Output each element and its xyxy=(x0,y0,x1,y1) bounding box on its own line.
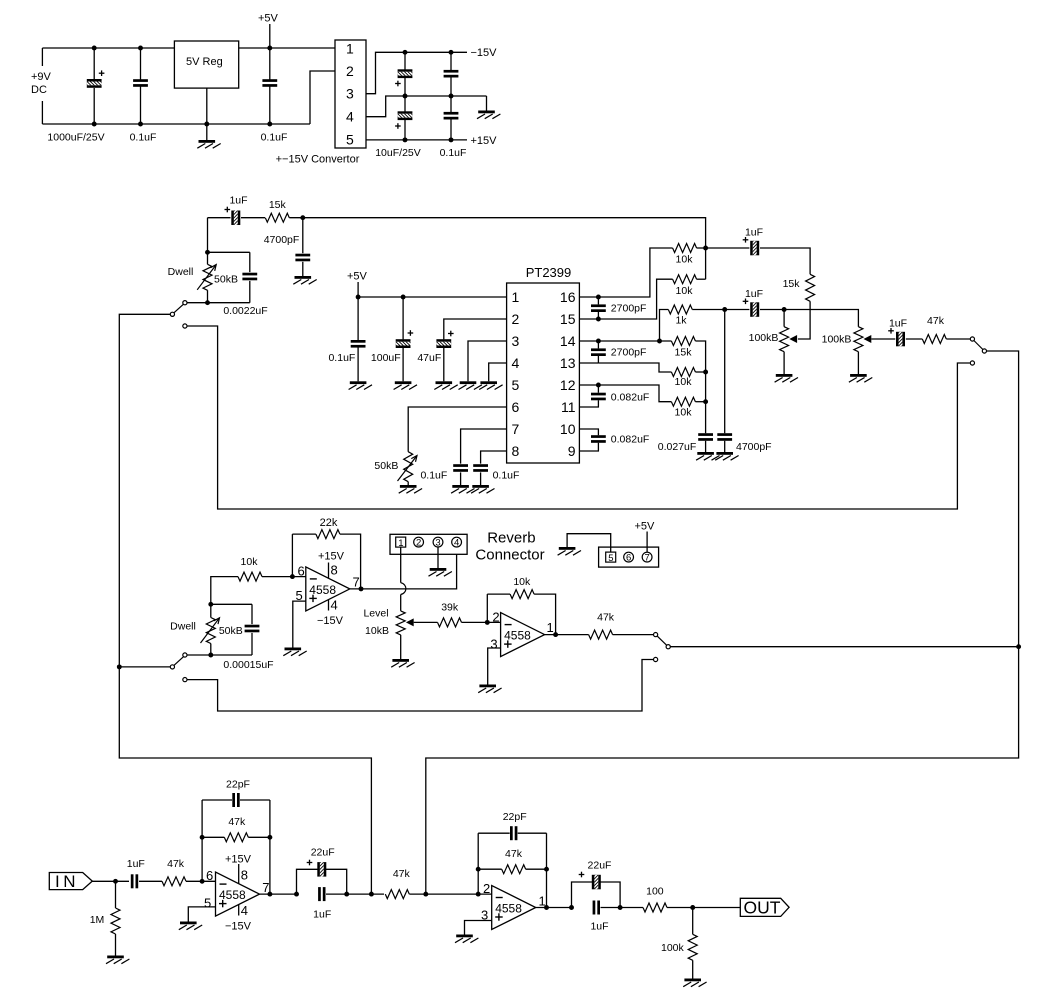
wire xyxy=(140,86,142,124)
wire convertor pin5 +15V rail xyxy=(366,139,467,141)
wire return bus from SW3 common xyxy=(426,351,1019,894)
svg-text:12: 12 xyxy=(560,377,576,393)
wire xyxy=(302,218,304,254)
capacitor 0.1uF upper xyxy=(444,70,459,78)
resistor 15k (feedback) xyxy=(265,213,289,222)
wire to 15k xyxy=(760,248,810,274)
wire feedback right leg xyxy=(269,800,271,894)
node xyxy=(657,339,662,344)
wire pin 4 to ground xyxy=(489,363,507,381)
wire xyxy=(450,119,452,140)
wire hop over opamp1 output xyxy=(401,583,406,595)
node opamp4 inv input xyxy=(476,892,481,897)
wire to opamp2 inv input xyxy=(462,621,501,623)
resistor 1k xyxy=(668,305,692,314)
wire long top feed to 10k pair xyxy=(289,218,705,280)
potentiometer Level 10kB xyxy=(396,611,405,635)
svg-text:1uF: 1uF xyxy=(745,226,763,238)
svg-text:6: 6 xyxy=(206,868,213,883)
capacitor 0.1uF input xyxy=(133,79,148,87)
svg-text:+5V: +5V xyxy=(258,13,279,25)
svg-text:−15V: −15V xyxy=(471,47,498,59)
node xyxy=(138,122,143,127)
node opamp1 output xyxy=(359,586,364,591)
svg-text:1: 1 xyxy=(547,620,554,635)
svg-text:1uF: 1uF xyxy=(889,317,907,329)
ground xyxy=(434,381,457,389)
wire +9V input upper xyxy=(41,48,43,66)
switch SW1 common contact xyxy=(170,312,174,316)
svg-text:0.027uF: 0.027uF xyxy=(658,441,697,453)
wire xyxy=(249,281,251,303)
wire xyxy=(115,934,117,956)
wire xyxy=(93,48,95,79)
node xyxy=(703,399,708,404)
wire xyxy=(601,907,644,909)
reverb connector J1 pins 5-7 xyxy=(599,547,659,567)
svg-text:22uF: 22uF xyxy=(311,846,335,858)
wire xyxy=(597,356,599,363)
svg-text:11: 11 xyxy=(561,399,576,415)
svg-text:2700pF: 2700pF xyxy=(611,347,647,359)
wire connector pin5 to ground xyxy=(567,534,611,552)
wire pin 12 to 10k xyxy=(579,385,671,402)
svg-text:1000uF/25V: 1000uF/25V xyxy=(47,132,104,144)
wire xyxy=(692,908,694,935)
svg-text:4: 4 xyxy=(454,538,459,549)
node opamp3 inv input xyxy=(200,879,205,884)
svg-text:15k: 15k xyxy=(783,278,801,290)
switch SW3 throw B contact xyxy=(970,361,974,365)
wire to opamp4 inv input xyxy=(409,893,491,895)
ground opamp3 +in xyxy=(179,922,202,930)
node xyxy=(344,892,349,897)
svg-text:47k: 47k xyxy=(597,611,615,623)
capacitor 0.082uF (pins 10-9) xyxy=(591,435,606,443)
svg-text:7: 7 xyxy=(353,575,360,590)
svg-text:4: 4 xyxy=(512,355,520,371)
switch SW4 throw A contact xyxy=(654,633,658,637)
resistor 100k xyxy=(688,934,697,960)
svg-text:4558: 4558 xyxy=(219,888,246,902)
svg-text:5: 5 xyxy=(512,377,520,393)
svg-text:22uF: 22uF xyxy=(588,859,612,871)
svg-text:10k: 10k xyxy=(676,285,694,297)
wiper arrow 100kB pot 1 xyxy=(789,335,797,343)
wire convertor pin3 to -15V rail xyxy=(366,52,467,93)
capacitor 0.082uF (pins 12-11) xyxy=(591,393,606,401)
wire SW2 throw B to SW4 throw B (bypass) xyxy=(187,660,654,712)
capacitor 22uF (coupling 2) xyxy=(579,869,601,895)
node xyxy=(596,317,601,322)
+-15V convertor module U2 xyxy=(335,40,366,148)
switch SW4 common contact xyxy=(666,645,670,649)
ground pin 3 xyxy=(459,381,482,389)
svg-text:4: 4 xyxy=(346,109,354,125)
wire convertor pin2 to ground rail xyxy=(310,71,335,124)
ground mid rail xyxy=(477,111,500,119)
svg-text:0.1uF: 0.1uF xyxy=(420,469,447,481)
node xyxy=(544,867,549,872)
wire to OUT xyxy=(667,907,740,909)
svg-text:0.1uF: 0.1uF xyxy=(440,147,467,159)
svg-text:14: 14 xyxy=(560,333,576,349)
node xyxy=(92,122,97,127)
svg-text:−15V: −15V xyxy=(225,920,252,932)
resistor 10k (recovery fb) xyxy=(510,590,534,599)
wire xyxy=(404,120,406,140)
wire opamp2 +in to ground xyxy=(488,648,501,685)
switch SW4 throw B contact xyxy=(654,657,658,661)
potentiometer Dwell 50kB (section 2) xyxy=(203,264,212,290)
wire +5V rail to pin 1 xyxy=(358,296,507,298)
wire xyxy=(697,278,706,280)
svg-text:22pF: 22pF xyxy=(226,779,250,791)
capacitor 10uF/25V upper xyxy=(392,69,418,86)
svg-text:47uF: 47uF xyxy=(417,352,441,364)
svg-text:OUT: OUT xyxy=(744,898,781,918)
svg-text:22k: 22k xyxy=(320,517,338,529)
capacitor 0.027uF xyxy=(698,433,713,441)
capacitor 1000uF/25V xyxy=(81,70,107,87)
svg-text:4558: 4558 xyxy=(309,583,336,597)
wire xyxy=(760,309,784,311)
wire xyxy=(202,799,232,801)
wire SW4 common to return bus xyxy=(670,646,1018,648)
ground pot1 xyxy=(775,374,798,382)
wire opamp3 out xyxy=(260,893,297,895)
svg-text:15: 15 xyxy=(560,311,576,327)
switch SW2 lever xyxy=(174,657,184,666)
wire opamp4 +in to ground xyxy=(465,921,492,935)
ground xyxy=(451,485,474,493)
wire pin 13 to 10k xyxy=(598,363,671,372)
wire pot bottom node xyxy=(187,302,250,304)
svg-text:4558: 4558 xyxy=(504,629,531,643)
wire xyxy=(249,252,251,272)
switch SW3 common contact xyxy=(982,349,986,353)
capacitor 1uF (coupling 2) xyxy=(593,901,600,915)
svg-text:Connector: Connector xyxy=(475,547,544,564)
svg-text:4700pF: 4700pF xyxy=(264,234,300,246)
wire to Level pot xyxy=(400,595,402,611)
svg-text:5: 5 xyxy=(608,553,613,564)
wire xyxy=(241,217,265,219)
wire xyxy=(400,635,402,659)
wire 15k to pot1 wiper xyxy=(798,301,810,339)
svg-text:Reverb: Reverb xyxy=(487,529,535,546)
svg-text:10k: 10k xyxy=(676,253,694,265)
svg-text:13: 13 xyxy=(560,355,576,371)
svg-text:4: 4 xyxy=(241,903,248,918)
svg-text:7: 7 xyxy=(512,421,520,437)
wire xyxy=(210,644,212,656)
resistor 100 xyxy=(643,903,667,912)
wire to 10k xyxy=(211,577,238,605)
power section top rail wire xyxy=(42,47,335,49)
wire xyxy=(487,593,510,595)
node xyxy=(267,835,272,840)
svg-text:0.00015uF: 0.00015uF xyxy=(223,659,273,671)
wire send bus from SW1 common to input buffer node xyxy=(119,314,371,894)
svg-text:10: 10 xyxy=(560,421,576,437)
capacitor 1uF input xyxy=(131,874,138,888)
node xyxy=(449,50,454,55)
wire pin 8 stub xyxy=(238,864,240,884)
node xyxy=(403,137,408,142)
svg-text:+5V: +5V xyxy=(347,271,368,283)
ground connector pin 3 xyxy=(429,568,452,576)
wire pin 7 to 0.1uF xyxy=(461,429,507,464)
wire xyxy=(600,882,620,908)
ground 50kB pot xyxy=(399,485,422,493)
node xyxy=(596,383,601,388)
wire opamp3 +in to ground xyxy=(188,907,215,922)
capacitor 22pF (opamp3) xyxy=(232,793,239,807)
wire opamp1 out to connector pin 4 xyxy=(350,547,457,589)
resistor 39k xyxy=(438,618,462,627)
svg-text:5: 5 xyxy=(346,131,354,147)
svg-text:DC: DC xyxy=(31,84,47,96)
wire from IN xyxy=(92,880,129,882)
node opamp2 output xyxy=(553,632,558,637)
node xyxy=(138,46,143,51)
op-amp U4a 4558 (driver) xyxy=(306,567,350,611)
capacitor 1uF (wet out) xyxy=(743,235,759,261)
wire to pin 9 xyxy=(579,443,598,451)
wire xyxy=(202,836,224,838)
resistor 10k (drive) xyxy=(238,572,262,581)
resistor 15k (pin14) xyxy=(671,337,695,346)
svg-text:39k: 39k xyxy=(441,602,459,614)
capacitor 1uF (to switch) xyxy=(888,326,905,352)
wire pin 4 stub xyxy=(328,600,330,611)
ground 100k xyxy=(683,979,706,987)
wire pin 8 stub xyxy=(328,563,330,579)
wire +9V input lower xyxy=(41,101,43,124)
svg-text:6: 6 xyxy=(512,399,520,415)
capacitor 1uF (echo mix) xyxy=(743,296,759,322)
wire xyxy=(269,48,271,80)
wiper arrow Dwell pot xyxy=(197,265,216,290)
wire xyxy=(906,338,923,340)
potentiometer 100kB pot 2 xyxy=(854,327,863,352)
wire convertor pin4 to mid rail xyxy=(366,96,487,117)
capacitor 0.1uF lower xyxy=(444,112,459,120)
ground pot2 xyxy=(849,374,872,382)
node xyxy=(200,835,205,840)
ground pin 4 xyxy=(479,381,502,389)
wire 10k right leg xyxy=(534,594,556,635)
svg-text:2: 2 xyxy=(416,538,421,549)
wire xyxy=(326,869,347,894)
op-amp U4b 4558 (recovery) xyxy=(501,613,545,657)
svg-text:PT2399: PT2399 xyxy=(526,265,572,280)
wire to pin 11 xyxy=(579,400,598,407)
node xyxy=(401,295,406,300)
wire opamp2 out xyxy=(545,634,589,636)
resistor 47k (opamp3 fb) xyxy=(224,833,248,842)
wire to opamp3 inv input xyxy=(186,880,216,882)
svg-text:100: 100 xyxy=(646,885,664,897)
wire xyxy=(248,836,270,838)
svg-text:1uF: 1uF xyxy=(313,908,331,920)
wire opamp1 +in to ground xyxy=(293,601,306,647)
resistor 10k (pin13) xyxy=(671,368,695,377)
wire pot top node xyxy=(208,251,250,253)
resistor 10k (pin16) xyxy=(673,244,697,253)
wire xyxy=(783,310,785,327)
wire xyxy=(783,352,785,374)
capacitor 47uF xyxy=(430,331,456,348)
wire xyxy=(697,247,706,249)
svg-text:100uF: 100uF xyxy=(371,352,401,364)
wire 22k right leg xyxy=(340,534,361,589)
svg-text:1uF: 1uF xyxy=(590,920,608,932)
svg-text:+5V: +5V xyxy=(635,521,656,533)
wire xyxy=(706,247,750,249)
node xyxy=(208,653,213,658)
svg-text:2: 2 xyxy=(512,311,520,327)
svg-text:3: 3 xyxy=(435,538,440,549)
wire feedback right leg xyxy=(546,833,548,907)
svg-text:16: 16 xyxy=(560,289,576,305)
ground connector pin 5 xyxy=(558,547,581,555)
svg-text:1uF: 1uF xyxy=(745,288,763,300)
potentiometer 100kB pot 1 xyxy=(780,327,789,352)
switch SW4 lever xyxy=(657,636,666,645)
wire pot bottom node xyxy=(187,654,252,656)
wire pin 14 xyxy=(579,340,671,342)
switch SW2 throw A contact xyxy=(183,653,187,657)
capacitor 1uF (feedback in) xyxy=(225,204,241,230)
svg-text:50kB: 50kB xyxy=(374,460,398,472)
op-amp U5b 4558 (output mixer) xyxy=(492,886,536,930)
node xyxy=(449,94,454,99)
wire pin 3 to ground xyxy=(468,341,507,381)
OUT terminal tag xyxy=(740,898,789,918)
wire xyxy=(946,338,970,340)
ground 4700pF xyxy=(293,276,316,284)
svg-text:8: 8 xyxy=(241,867,248,882)
node xyxy=(569,905,574,910)
svg-text:IN: IN xyxy=(55,872,79,891)
wire to SW4 xyxy=(613,634,654,636)
svg-text:50kB: 50kB xyxy=(214,273,238,285)
wire connector pin1 down xyxy=(400,547,402,583)
svg-text:0.082uF: 0.082uF xyxy=(611,434,650,446)
svg-text:6: 6 xyxy=(298,564,305,579)
wire xyxy=(292,533,316,535)
wire xyxy=(572,882,593,908)
power section bottom rail wire xyxy=(42,123,310,125)
wire xyxy=(407,482,409,485)
wire SW2 common to send bus xyxy=(119,666,170,668)
wire xyxy=(460,472,462,485)
wire xyxy=(269,86,271,124)
reverb connector J1 pins 1-4 xyxy=(390,534,467,554)
switch SW3 throw A contact xyxy=(970,337,974,341)
switch SW3 lever xyxy=(974,341,983,350)
svg-text:1k: 1k xyxy=(675,315,687,327)
svg-text:10uF/25V: 10uF/25V xyxy=(375,147,421,159)
svg-text:3: 3 xyxy=(346,86,354,102)
wire feedback left leg xyxy=(477,833,479,894)
capacitor 0.00015uF xyxy=(245,625,260,633)
svg-text:0.0022uF: 0.0022uF xyxy=(223,305,267,317)
wire xyxy=(326,893,384,895)
wire pin 8 to 0.1uF xyxy=(481,451,507,464)
switch SW1 throw A contact xyxy=(183,301,187,305)
node send bus tap xyxy=(369,892,374,897)
wire xyxy=(207,290,209,303)
svg-text:+15V: +15V xyxy=(471,135,498,147)
resistor 22k xyxy=(316,530,340,539)
resistor 47k (return) xyxy=(589,630,613,639)
wire xyxy=(692,309,724,311)
wire xyxy=(597,312,599,319)
resistor 47k (wet send) xyxy=(922,335,946,344)
svg-text:2700pF: 2700pF xyxy=(611,303,647,315)
svg-text:4: 4 xyxy=(331,598,338,613)
node xyxy=(476,867,481,872)
svg-text:Dwell: Dwell xyxy=(170,620,196,632)
wire to pot2 top xyxy=(784,310,858,327)
wiper arrow 50kB pot xyxy=(398,456,418,482)
wire xyxy=(240,799,270,801)
svg-text:2: 2 xyxy=(346,63,354,79)
svg-text:0.1uF: 0.1uF xyxy=(493,469,520,481)
wire +5V to connector pin 7 xyxy=(646,532,648,553)
capacitor 2700pF (pins 16-15) xyxy=(591,304,606,312)
capacitor 4700pF xyxy=(295,254,310,262)
wire 15k to sum node column xyxy=(695,341,705,433)
wire xyxy=(597,297,599,304)
wire xyxy=(140,48,142,80)
IC PT2399 U3 xyxy=(507,283,580,463)
node xyxy=(703,370,708,375)
svg-text:8: 8 xyxy=(512,443,520,459)
svg-text:+15V: +15V xyxy=(225,854,252,866)
svg-text:0.1uF: 0.1uF xyxy=(328,352,355,364)
wire xyxy=(695,401,705,403)
wire xyxy=(480,472,482,485)
ground xyxy=(349,381,372,389)
node xyxy=(403,94,408,99)
svg-text:10k: 10k xyxy=(241,556,259,568)
wire pin 15 to 10k xyxy=(579,279,672,319)
resistor 10k (pin15) xyxy=(673,275,697,284)
svg-text:1: 1 xyxy=(346,41,354,57)
svg-text:7: 7 xyxy=(644,553,649,564)
wire xyxy=(115,881,117,908)
capacitor 0.1uF pin8 xyxy=(473,464,488,472)
resistor 10k (pin12) xyxy=(671,397,695,406)
svg-text:47k: 47k xyxy=(228,816,246,828)
wire feedback left leg xyxy=(201,800,203,881)
wiper arrow 100kB pot 2 xyxy=(864,335,872,343)
svg-text:50kB: 50kB xyxy=(219,625,243,637)
node xyxy=(267,892,272,897)
5V regulator U1 xyxy=(174,41,238,88)
wire connector pin3 to ground xyxy=(437,547,439,568)
node xyxy=(204,122,209,127)
node xyxy=(449,137,454,142)
svg-text:1M: 1M xyxy=(90,914,105,926)
node xyxy=(596,339,601,344)
node xyxy=(403,50,408,55)
svg-text:0.1uF: 0.1uF xyxy=(130,132,157,144)
